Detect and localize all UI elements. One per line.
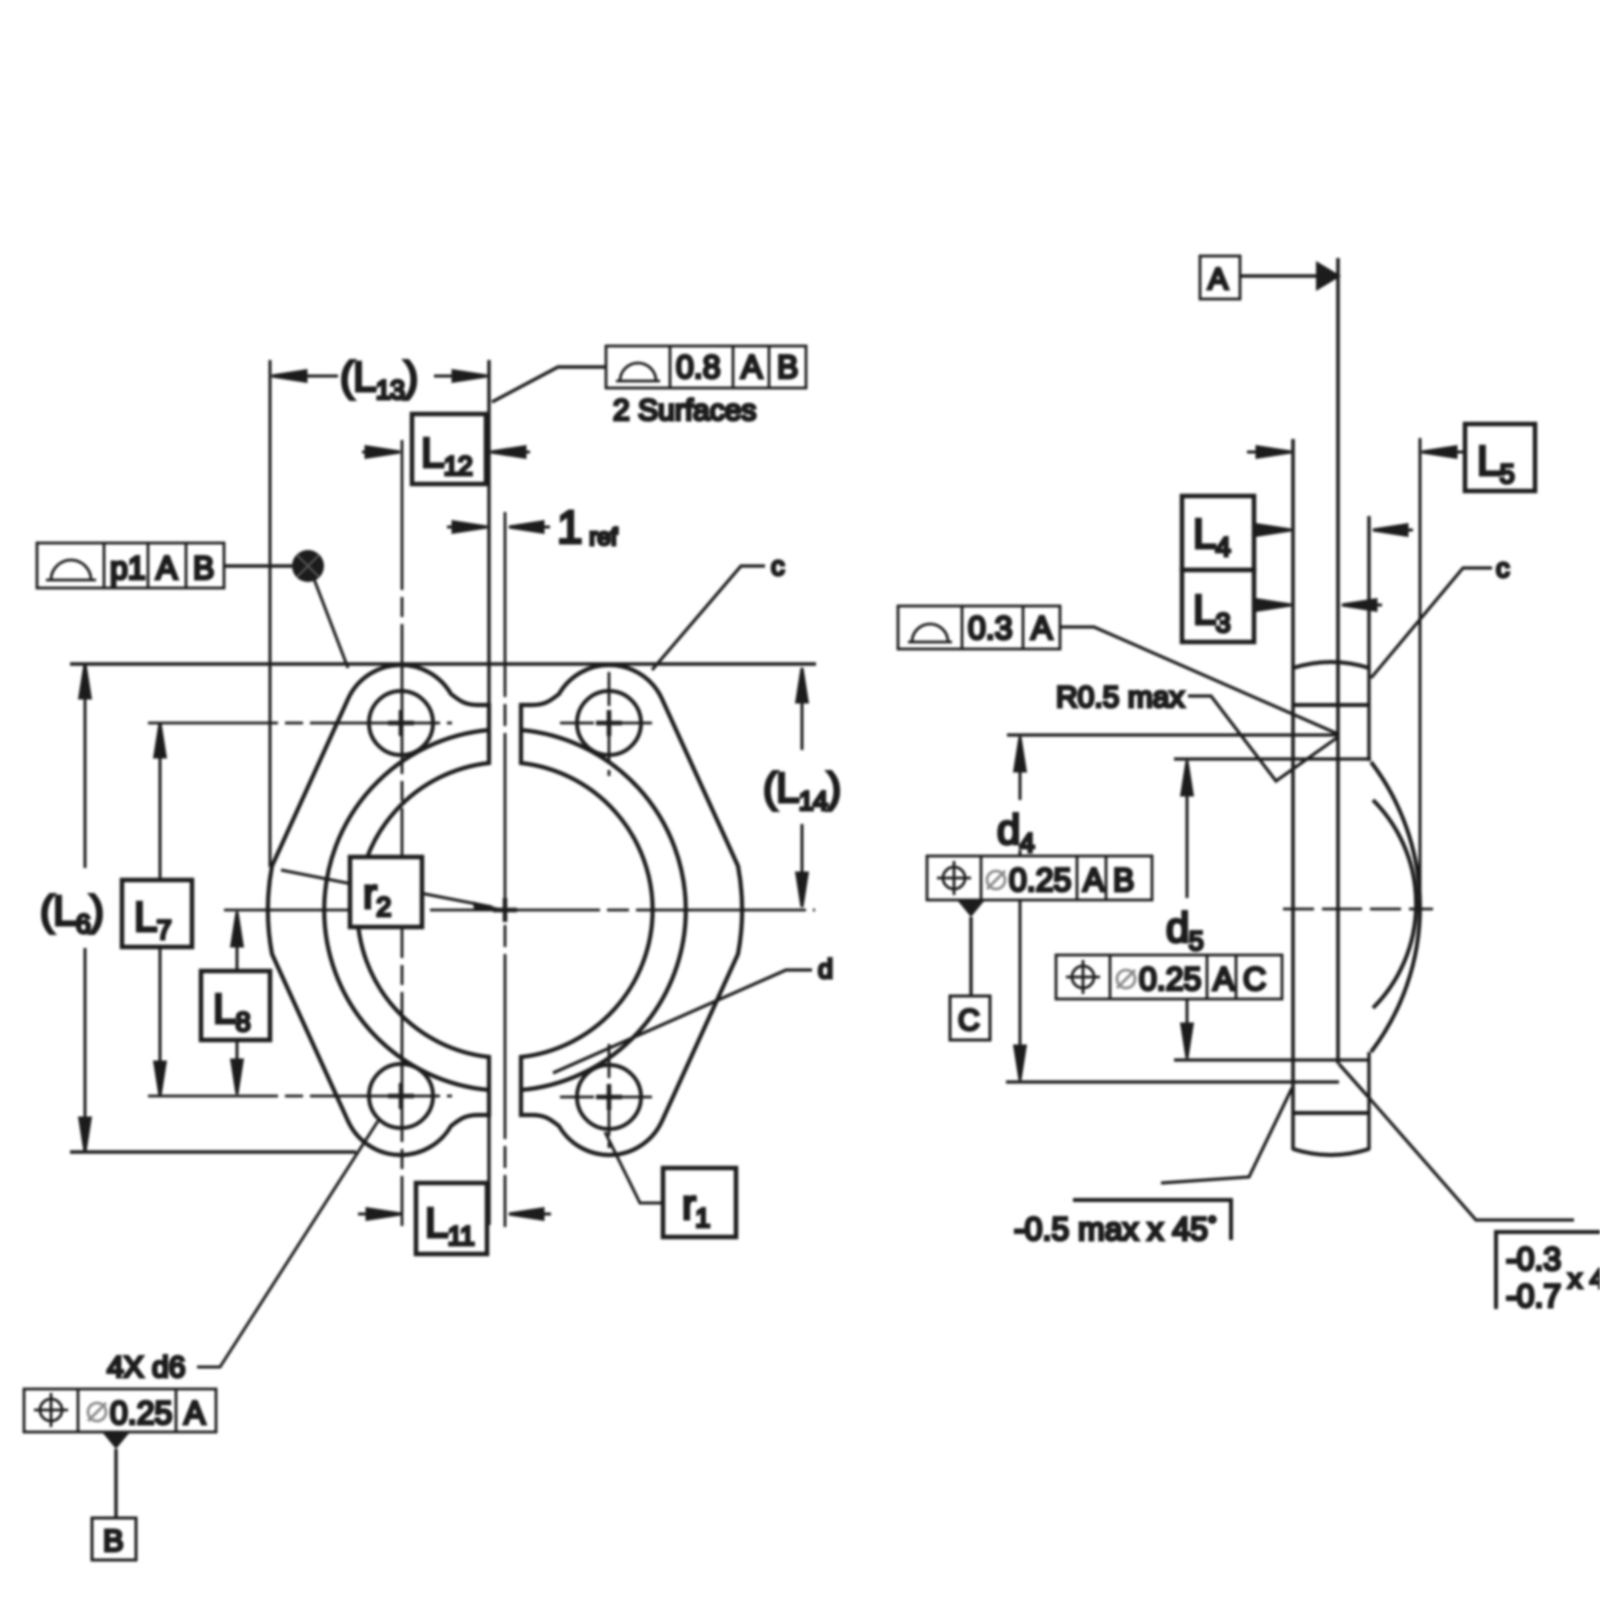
dimension L7 xyxy=(155,723,166,1096)
datum feature C symbol xyxy=(957,900,985,917)
boxed label L4 xyxy=(1182,496,1254,570)
side view bore edge y759 with d5 extension xyxy=(1174,757,1371,760)
svg-text:A: A xyxy=(1031,610,1053,646)
wire top tangent extension line left view xyxy=(70,662,816,666)
center cross of bore xyxy=(493,908,517,913)
boxed label L11 xyxy=(416,1183,487,1254)
dimension L8 xyxy=(232,912,243,1094)
boxed label L3 xyxy=(1182,570,1254,642)
svg-text:d4: d4 xyxy=(997,806,1035,858)
svg-text:d: d xyxy=(818,954,833,984)
side view left face line x1293 xyxy=(1291,439,1295,1150)
side view bottom edge arc xyxy=(1293,1149,1369,1155)
leader for 0.3 frame xyxy=(1060,627,1338,734)
svg-text:A: A xyxy=(1083,862,1105,898)
note -0.3 -0.7 x 45 with bracket xyxy=(1371,1100,1574,1220)
svg-text:L12: L12 xyxy=(421,429,472,481)
bolt hole top right xyxy=(577,691,641,755)
svg-text:B: B xyxy=(193,550,214,586)
side view groove face line x1369 upper xyxy=(1367,516,1370,761)
wire hole centerline right bottom xyxy=(560,1096,658,1099)
gdt frame position d5 xyxy=(1056,955,1282,999)
boss arc left half xyxy=(324,730,489,1090)
svg-text:A: A xyxy=(741,349,763,385)
bolt hole bottom left xyxy=(369,1064,433,1128)
flange left half outline xyxy=(268,665,489,1155)
boss arc right half xyxy=(521,730,686,1090)
gdt frame p1 A B xyxy=(37,543,224,588)
svg-text:(L6): (L6) xyxy=(40,887,103,939)
wire hole centerline y1096 xyxy=(148,1095,452,1098)
svg-text:A: A xyxy=(1208,263,1228,296)
dimension L5 xyxy=(1247,447,1464,458)
svg-text:A: A xyxy=(1213,961,1235,997)
svg-text:-0.5 max x 45°: -0.5 max x 45° xyxy=(1014,1211,1217,1247)
wire hole centerline y723 xyxy=(148,722,452,725)
svg-text:A: A xyxy=(184,1395,206,1431)
note -0.5 max x 45 with bracket xyxy=(1161,1088,1292,1183)
dimension L6 xyxy=(80,664,91,1152)
leader for p1 frame xyxy=(224,564,292,567)
boxed label L12 xyxy=(412,414,486,484)
wire bottom extension line left view xyxy=(70,1150,356,1154)
side view groove edge y1082 with d4 extension xyxy=(1006,1080,1339,1083)
side view datum face line x1338 xyxy=(1336,258,1340,1064)
wire extension line x402 hole centerline xyxy=(401,440,404,1226)
dimension L12 xyxy=(362,447,530,458)
svg-text:B: B xyxy=(777,349,798,385)
svg-text:0.8: 0.8 xyxy=(676,349,720,385)
svg-text:-0.3: -0.3 xyxy=(1506,1241,1561,1277)
svg-text:L7: L7 xyxy=(134,893,171,945)
svg-text:0.25: 0.25 xyxy=(1009,862,1071,898)
boxed label L8 xyxy=(201,971,270,1040)
side view saddle edge y1113 xyxy=(1293,1111,1369,1115)
wire hole centerline right top xyxy=(560,722,658,725)
svg-text:1 ref: 1 ref xyxy=(557,501,618,553)
dimension L11 xyxy=(358,1209,551,1220)
dimension L3 xyxy=(1254,600,1382,611)
dimension L4 xyxy=(1254,525,1413,536)
gdt frame 0.3 A xyxy=(898,606,1060,649)
flange right half outline xyxy=(521,665,742,1155)
gdt frame position 0.25 A xyxy=(24,1389,216,1432)
gdt frame 0.8 A B xyxy=(606,346,806,388)
side view top edge arc xyxy=(1293,662,1369,668)
hole center ticks xyxy=(388,710,622,1110)
boxed label r1 with leader xyxy=(605,1132,663,1203)
side view groove face line x1369 lower xyxy=(1367,1052,1370,1150)
svg-text:x 45: x 45 xyxy=(1568,1263,1600,1294)
node horizontal centerline left view xyxy=(224,909,815,912)
bolt hole top left xyxy=(369,691,433,755)
svg-text:B: B xyxy=(103,1523,124,1558)
svg-text:d5: d5 xyxy=(1166,904,1203,956)
svg-text:0.3: 0.3 xyxy=(968,610,1012,646)
side view chamfer line xyxy=(1339,1064,1371,1100)
svg-text:A: A xyxy=(156,550,178,586)
svg-text:0.25: 0.25 xyxy=(1139,961,1201,997)
side view bore silhouette arc xyxy=(1373,800,1416,1008)
dimension line d4 xyxy=(1015,737,1026,1080)
svg-text:p1: p1 xyxy=(110,550,146,586)
bolt hole bottom right xyxy=(577,1065,641,1129)
svg-text:0.25: 0.25 xyxy=(110,1395,172,1431)
leader from target to flange xyxy=(314,579,348,668)
wire extension line x270 xyxy=(269,360,272,867)
node vertical centerline left view xyxy=(504,512,507,1227)
boxed label L7 xyxy=(122,880,192,947)
svg-text:C: C xyxy=(958,1004,980,1037)
side view horizontal centerline xyxy=(1283,908,1433,911)
dimension line d5 xyxy=(1182,761,1193,1058)
gdt frame position d4 xyxy=(927,856,1152,900)
svg-text:4X d6: 4X d6 xyxy=(107,1351,185,1384)
wire extension line x489 gap edge xyxy=(487,360,490,706)
boxed label L5 xyxy=(1465,424,1535,491)
svg-text:c: c xyxy=(771,551,785,581)
svg-text:(L14): (L14) xyxy=(763,764,840,816)
side view bore edge y1060 with d5 extension xyxy=(1174,1058,1369,1061)
side view extension line x1420 xyxy=(1419,438,1422,906)
svg-text:(L13): (L13) xyxy=(340,353,417,405)
datum feature B symbol xyxy=(102,1432,130,1449)
side view groove edge y735 with d4 extension xyxy=(1007,733,1338,736)
leader for 0.8 frame xyxy=(492,367,606,402)
svg-text:B: B xyxy=(1113,862,1134,898)
boxed label r2 with leader xyxy=(281,870,352,884)
dimension L14 xyxy=(797,668,808,907)
svg-text:2 Surfaces: 2 Surfaces xyxy=(613,394,756,427)
svg-text:-0.7: -0.7 xyxy=(1506,1278,1561,1314)
dimension L13 xyxy=(272,371,487,382)
datum A flag xyxy=(1200,256,1240,299)
dimension 1 ref xyxy=(447,522,550,533)
side view boss silhouette arc xyxy=(1371,762,1420,1052)
side view saddle edge y705 xyxy=(1293,703,1369,707)
svg-text:L8: L8 xyxy=(213,985,250,1037)
datum target point xyxy=(292,550,324,582)
svg-text:R0.5 max: R0.5 max xyxy=(1056,681,1184,714)
svg-text:c: c xyxy=(1496,553,1510,583)
svg-text:C: C xyxy=(1243,961,1266,997)
